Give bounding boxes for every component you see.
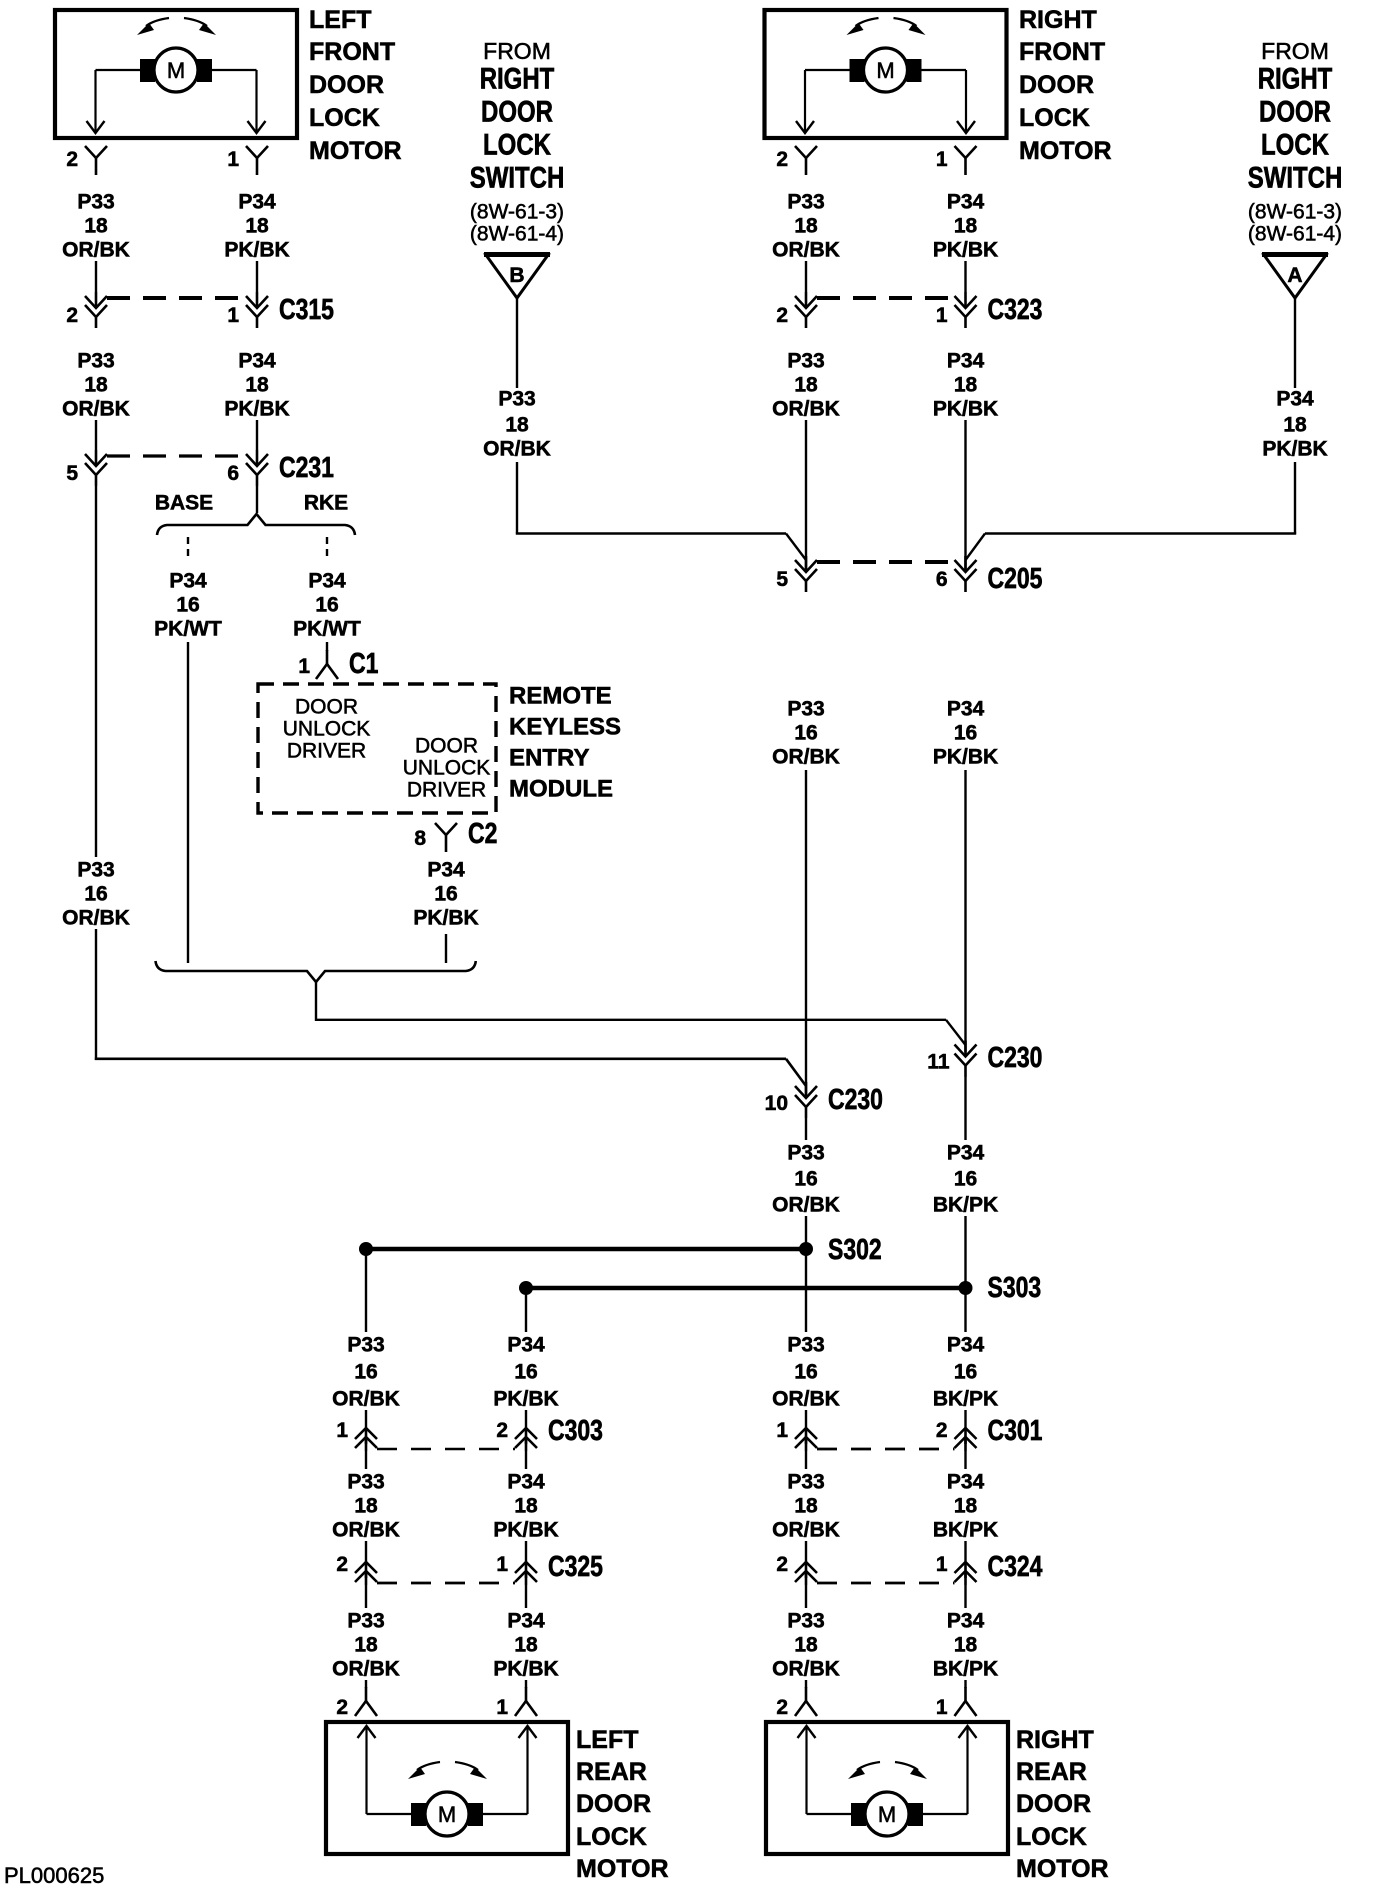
svg-text:C230: C230 (828, 1082, 883, 1115)
svg-text:FRONT: FRONT (309, 38, 395, 66)
svg-text:C303: C303 (548, 1413, 603, 1446)
svg-text:DOOR: DOOR (415, 735, 478, 758)
pin 2 of left rear motor (365, 1687, 368, 1701)
svg-text:1: 1 (936, 1696, 948, 1719)
svg-text:BK/PK: BK/PK (933, 1194, 998, 1217)
svg-text:P34: P34 (947, 350, 985, 373)
svg-text:P33: P33 (787, 698, 824, 721)
svg-text:C2: C2 (468, 816, 497, 849)
motor: left front door lock motor (55, 10, 297, 138)
wire (516, 462, 518, 534)
wire (525, 1410, 527, 1428)
svg-text:UNLOCK: UNLOCK (403, 757, 491, 780)
svg-text:DOOR: DOOR (576, 1790, 651, 1818)
svg-text:(8W-61-4): (8W-61-4) (1248, 223, 1342, 246)
wire (805, 1585, 807, 1608)
wire (95, 486, 97, 857)
svg-text:18: 18 (514, 1495, 538, 1518)
wire (365, 1680, 367, 1688)
wire (256, 261, 258, 292)
connector C303 pin 1 (355, 1428, 377, 1439)
svg-text:C323: C323 (988, 292, 1043, 325)
svg-text:MOTOR: MOTOR (576, 1855, 669, 1883)
pin 2 of right rear motor (805, 1687, 808, 1701)
svg-text:1: 1 (298, 655, 310, 678)
svg-text:OR/BK: OR/BK (332, 1658, 400, 1681)
svg-text:1: 1 (496, 1696, 508, 1719)
svg-text:DOOR: DOOR (309, 71, 384, 99)
connector C324 pin 2 (795, 1562, 817, 1573)
wire (805, 1680, 807, 1688)
svg-text:P34: P34 (507, 1610, 545, 1633)
wire (964, 1410, 966, 1428)
svg-text:2: 2 (336, 1553, 348, 1576)
svg-text:18: 18 (245, 215, 269, 238)
connector C324 pin 1 (955, 1562, 977, 1573)
svg-text:18: 18 (954, 1495, 978, 1518)
wire (525, 1541, 527, 1562)
svg-text:UNLOCK: UNLOCK (283, 718, 371, 741)
svg-text:LOCK: LOCK (1016, 1823, 1087, 1851)
svg-text:C301: C301 (988, 1413, 1043, 1446)
svg-text:OR/BK: OR/BK (483, 438, 551, 461)
svg-text:PK/BK: PK/BK (224, 239, 289, 262)
svg-text:P33: P33 (347, 1471, 384, 1494)
svg-text:OR/BK: OR/BK (62, 907, 130, 930)
svg-text:16: 16 (954, 1168, 977, 1191)
svg-text:6: 6 (936, 568, 948, 591)
svg-text:OR/BK: OR/BK (62, 239, 130, 262)
svg-text:SWITCH: SWITCH (1248, 160, 1343, 194)
wire (365, 1585, 367, 1608)
svg-text:16: 16 (954, 722, 977, 745)
connector C230 pin 11 (955, 1045, 977, 1057)
svg-text:PK/WT: PK/WT (154, 618, 222, 641)
svg-text:OR/BK: OR/BK (772, 1519, 840, 1542)
connector C325 dashed link (377, 1582, 515, 1585)
svg-text:PK/BK: PK/BK (933, 398, 998, 421)
svg-text:2: 2 (66, 304, 78, 327)
svg-text:16: 16 (794, 1168, 817, 1191)
svg-text:ENTRY: ENTRY (509, 745, 589, 772)
connector C315 pin 1 (246, 296, 268, 308)
svg-text:BK/PK: BK/PK (933, 1388, 998, 1411)
wire (964, 420, 966, 570)
wire (95, 929, 97, 1060)
svg-text:P34: P34 (947, 1334, 985, 1357)
svg-text:LOCK: LOCK (483, 127, 551, 161)
svg-text:DRIVER: DRIVER (287, 740, 366, 763)
svg-text:PK/BK: PK/BK (1262, 438, 1327, 461)
connector C205 dashed link (817, 560, 955, 564)
svg-text:16: 16 (954, 1361, 977, 1384)
svg-text:P34: P34 (947, 1471, 985, 1494)
svg-text:(8W-61-3): (8W-61-3) (470, 200, 564, 223)
svg-text:18: 18 (954, 215, 978, 238)
svg-text:OR/BK: OR/BK (62, 398, 130, 421)
connector C205 pin 5 (795, 560, 817, 572)
svg-text:P34: P34 (238, 191, 276, 214)
svg-text:16: 16 (315, 594, 338, 617)
connector C301 pin 2 (955, 1428, 977, 1439)
svg-text:C324: C324 (988, 1549, 1043, 1582)
connector C231 pin 6 (246, 454, 268, 466)
svg-text:18: 18 (794, 374, 818, 397)
svg-text:OR/BK: OR/BK (772, 239, 840, 262)
svg-text:M: M (167, 58, 185, 83)
svg-text:P33: P33 (498, 388, 535, 411)
svg-text:RKE: RKE (304, 492, 348, 515)
svg-text:C205: C205 (988, 561, 1043, 594)
svg-text:P33: P33 (77, 191, 114, 214)
svg-text:LOCK: LOCK (576, 1823, 647, 1851)
svg-text:BK/PK: BK/PK (933, 1519, 998, 1542)
svg-text:RIGHT: RIGHT (480, 61, 555, 95)
wire (964, 1216, 966, 1332)
svg-text:P34: P34 (1276, 388, 1314, 411)
svg-text:2: 2 (936, 1419, 948, 1442)
motor: right rear door lock motor (766, 1722, 1008, 1854)
svg-text:8: 8 (414, 827, 426, 850)
svg-text:P34: P34 (238, 350, 276, 373)
svg-text:P33: P33 (787, 191, 824, 214)
svg-text:RIGHT: RIGHT (1016, 1726, 1094, 1754)
svg-text:OR/BK: OR/BK (332, 1388, 400, 1411)
svg-text:18: 18 (1283, 414, 1307, 437)
svg-text:P33: P33 (787, 1142, 824, 1165)
svg-text:PK/BK: PK/BK (493, 1658, 558, 1681)
svg-text:RIGHT: RIGHT (1019, 6, 1097, 34)
svg-text:P34: P34 (308, 570, 346, 593)
svg-text:18: 18 (794, 1634, 818, 1657)
svg-text:18: 18 (245, 374, 269, 397)
svg-text:18: 18 (354, 1634, 378, 1657)
svg-text:KEYLESS: KEYLESS (509, 714, 621, 741)
svg-text:BK/PK: BK/PK (933, 1658, 998, 1681)
svg-text:1: 1 (227, 304, 239, 327)
svg-text:PK/WT: PK/WT (293, 618, 361, 641)
svg-text:S302: S302 (828, 1232, 882, 1265)
connector C205 pin 6 (955, 560, 977, 572)
wire (964, 1680, 966, 1688)
wire (516, 298, 518, 388)
svg-text:1: 1 (336, 1419, 348, 1442)
svg-text:P34: P34 (427, 859, 465, 882)
svg-text:1: 1 (227, 148, 239, 171)
svg-text:P33: P33 (787, 1334, 824, 1357)
connector C323 pin 1 (955, 296, 977, 308)
pin 1 of right front motor (955, 146, 977, 158)
wire (365, 1541, 367, 1562)
svg-text:2: 2 (776, 1696, 788, 1719)
connector C231 dashed link (107, 454, 246, 457)
svg-text:P34: P34 (169, 570, 207, 593)
pin 2 of right front motor (795, 146, 817, 158)
svg-text:LOCK: LOCK (1019, 104, 1090, 132)
connector C2 pin 8 (435, 823, 457, 835)
svg-text:C1: C1 (349, 646, 378, 679)
pin 2 of left front motor (85, 146, 107, 158)
connector C303 dashed link (377, 1448, 515, 1450)
connector C1 pin 1 (326, 650, 329, 664)
svg-text:PK/BK: PK/BK (493, 1388, 558, 1411)
splice S303 (526, 1286, 966, 1291)
connector C231 pin 5 (85, 454, 107, 466)
net reference triangle A (1264, 255, 1326, 298)
svg-text:P34: P34 (947, 1142, 985, 1165)
svg-text:BASE: BASE (155, 492, 213, 515)
splice S302 (366, 1247, 806, 1252)
wire (805, 1410, 807, 1428)
svg-text:1: 1 (936, 304, 948, 327)
wire (365, 1249, 367, 1332)
wire (964, 1585, 966, 1608)
svg-text:C325: C325 (548, 1549, 603, 1582)
svg-text:RIGHT: RIGHT (1258, 61, 1333, 95)
svg-text:LEFT: LEFT (576, 1726, 639, 1754)
wire (95, 420, 97, 450)
wire (256, 486, 258, 513)
svg-text:OR/BK: OR/BK (772, 1194, 840, 1217)
wire (805, 1118, 807, 1140)
svg-text:PK/BK: PK/BK (933, 746, 998, 769)
svg-text:16: 16 (794, 722, 817, 745)
svg-text:18: 18 (354, 1495, 378, 1518)
svg-text:REAR: REAR (576, 1758, 647, 1786)
svg-text:18: 18 (514, 1634, 538, 1657)
svg-text:PK/BK: PK/BK (933, 239, 998, 262)
svg-text:16: 16 (354, 1361, 377, 1384)
svg-text:2: 2 (776, 148, 788, 171)
svg-text:PK/BK: PK/BK (493, 1519, 558, 1542)
svg-text:16: 16 (514, 1361, 537, 1384)
svg-text:PK/BK: PK/BK (224, 398, 289, 421)
wire (525, 1451, 527, 1469)
svg-text:P33: P33 (787, 1471, 824, 1494)
svg-text:LOCK: LOCK (1261, 127, 1329, 161)
module: remote keyless entry module (dashed box) (258, 684, 496, 813)
wire BASE branch (187, 642, 189, 963)
svg-text:P33: P33 (787, 1610, 824, 1633)
svg-text:18: 18 (954, 1634, 978, 1657)
brace merge to C230 (156, 961, 476, 982)
svg-text:OR/BK: OR/BK (772, 1388, 840, 1411)
svg-text:5: 5 (776, 568, 788, 591)
svg-text:P34: P34 (947, 191, 985, 214)
svg-text:1: 1 (936, 1553, 948, 1576)
motor: left rear door lock motor (326, 1722, 568, 1854)
svg-text:2: 2 (496, 1419, 508, 1442)
svg-text:P34: P34 (507, 1471, 545, 1494)
pin 1 of right rear motor (964, 1687, 967, 1701)
svg-text:2: 2 (776, 304, 788, 327)
svg-text:2: 2 (776, 1553, 788, 1576)
svg-text:C231: C231 (279, 450, 334, 483)
svg-text:MOTOR: MOTOR (1016, 1855, 1109, 1883)
wire (964, 1541, 966, 1562)
svg-text:FRONT: FRONT (1019, 38, 1105, 66)
svg-text:MOTOR: MOTOR (1019, 137, 1112, 165)
wire (805, 1541, 807, 1562)
svg-text:DOOR: DOOR (295, 696, 358, 719)
svg-text:OR/BK: OR/BK (772, 1658, 840, 1681)
svg-text:5: 5 (66, 462, 78, 485)
svg-text:16: 16 (794, 1361, 817, 1384)
svg-text:M: M (878, 1802, 896, 1827)
svg-text:PL000625: PL000625 (4, 1863, 104, 1888)
wire (525, 1680, 527, 1688)
svg-text:SWITCH: SWITCH (470, 160, 565, 194)
wire (805, 1216, 807, 1332)
svg-text:DOOR: DOOR (1016, 1790, 1091, 1818)
svg-text:DOOR: DOOR (1019, 71, 1094, 99)
svg-text:C230: C230 (988, 1040, 1043, 1073)
svg-text:M: M (438, 1802, 456, 1827)
svg-text:P33: P33 (787, 350, 824, 373)
svg-text:16: 16 (84, 883, 107, 906)
svg-text:10: 10 (765, 1092, 788, 1115)
wire (365, 1451, 367, 1469)
connector C325 pin 1 (515, 1562, 537, 1573)
svg-text:18: 18 (794, 1495, 818, 1518)
svg-text:C315: C315 (279, 292, 334, 325)
wire (1294, 462, 1296, 534)
svg-text:OR/BK: OR/BK (772, 398, 840, 421)
svg-text:P33: P33 (77, 859, 114, 882)
svg-text:P34: P34 (947, 698, 985, 721)
svg-text:REMOTE: REMOTE (509, 683, 612, 710)
connector C323 pin 2 (795, 296, 817, 308)
svg-text:P33: P33 (347, 1334, 384, 1357)
svg-text:18: 18 (84, 215, 108, 238)
connector C230 pin 10 (795, 1086, 817, 1098)
svg-text:M: M (876, 58, 894, 83)
wire (dashed stub) (187, 537, 189, 559)
wire (256, 420, 258, 450)
wire RKE branch (326, 642, 328, 651)
wire (964, 261, 966, 292)
svg-text:1: 1 (496, 1553, 508, 1576)
wire (805, 261, 807, 292)
svg-text:A: A (1287, 264, 1302, 287)
connector C315 dashed link (107, 296, 246, 300)
svg-text:P33: P33 (77, 350, 114, 373)
svg-text:B: B (509, 264, 524, 287)
connector C325 pin 2 (355, 1562, 377, 1573)
wire (dashed stub) (326, 537, 328, 559)
wire (805, 770, 807, 1094)
wire (964, 770, 966, 1052)
svg-text:OR/BK: OR/BK (332, 1519, 400, 1542)
svg-text:18: 18 (954, 374, 978, 397)
wire (1294, 298, 1296, 388)
connector C315 pin 2 (85, 296, 107, 308)
svg-text:DOOR: DOOR (1259, 94, 1331, 128)
wire (805, 420, 807, 570)
svg-text:REAR: REAR (1016, 1758, 1087, 1786)
svg-text:16: 16 (434, 883, 457, 906)
connector C303 pin 2 (515, 1428, 537, 1439)
pin 1 of left rear motor (525, 1687, 528, 1701)
svg-text:P33: P33 (347, 1610, 384, 1633)
svg-text:6: 6 (227, 462, 239, 485)
svg-text:MODULE: MODULE (509, 776, 613, 803)
svg-text:MOTOR: MOTOR (309, 137, 402, 165)
svg-text:18: 18 (794, 215, 818, 238)
svg-text:OR/BK: OR/BK (772, 746, 840, 769)
wire (805, 1451, 807, 1469)
svg-text:18: 18 (84, 374, 108, 397)
connector C323 dashed link (817, 296, 955, 300)
wire (95, 261, 97, 292)
svg-text:2: 2 (336, 1696, 348, 1719)
svg-text:(8W-61-3): (8W-61-3) (1248, 200, 1342, 223)
connector C301 dashed link (817, 1448, 955, 1451)
brace split BASE/RKE (157, 514, 355, 535)
wire (964, 1451, 966, 1469)
connector C324 dashed link (817, 1582, 955, 1585)
connector C301 pin 1 (795, 1428, 817, 1439)
svg-text:LOCK: LOCK (309, 104, 380, 132)
net reference triangle B (486, 255, 548, 298)
svg-text:PK/BK: PK/BK (413, 907, 478, 930)
svg-text:1: 1 (936, 148, 948, 171)
svg-text:LEFT: LEFT (309, 6, 372, 34)
svg-text:11: 11 (927, 1051, 950, 1074)
svg-text:1: 1 (776, 1419, 788, 1442)
pin 1 of left front motor (246, 146, 268, 158)
wire from brace merge (315, 982, 317, 1021)
svg-text:S303: S303 (988, 1270, 1042, 1303)
svg-text:P34: P34 (507, 1334, 545, 1357)
svg-text:P34: P34 (947, 1610, 985, 1633)
wire (525, 1288, 527, 1332)
wire (365, 1410, 367, 1428)
svg-text:DRIVER: DRIVER (407, 779, 486, 802)
wire (525, 1585, 527, 1608)
wire (445, 934, 447, 963)
svg-text:DOOR: DOOR (481, 94, 553, 128)
svg-text:2: 2 (66, 148, 78, 171)
svg-text:16: 16 (176, 594, 199, 617)
wire (964, 1076, 966, 1140)
svg-text:(8W-61-4): (8W-61-4) (470, 223, 564, 246)
svg-text:18: 18 (505, 414, 529, 437)
motor: right front door lock motor (765, 10, 1007, 138)
